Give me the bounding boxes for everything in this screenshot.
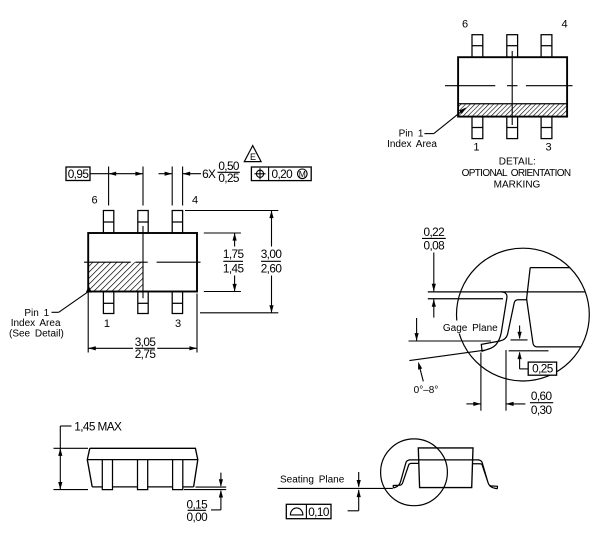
svg-text:6X: 6X [202,167,216,181]
svg-text:0°–8°: 0°–8° [414,385,439,396]
svg-text:0,20: 0,20 [272,167,294,181]
svg-text:M: M [299,169,306,179]
svg-text:OPTIONAL ORIENTATION: OPTIONAL ORIENTATION [462,168,571,179]
svg-text:0,22: 0,22 [424,225,445,239]
svg-text:3,00: 3,00 [261,247,283,261]
svg-text:6: 6 [462,19,468,31]
svg-text:0,25: 0,25 [532,362,554,376]
svg-text:0,08: 0,08 [424,239,446,253]
svg-text:3: 3 [175,318,181,330]
svg-text:0,30: 0,30 [531,403,553,417]
svg-text:(See Detail): (See Detail) [9,329,64,340]
svg-text:0,60: 0,60 [531,389,553,403]
svg-text:Pin 1: Pin 1 [399,129,424,140]
svg-text:Index Area: Index Area [387,139,437,150]
svg-text:0,00: 0,00 [187,510,209,524]
svg-text:0,95: 0,95 [68,167,90,181]
svg-text:E: E [250,152,256,162]
svg-text:Index Area: Index Area [11,318,61,329]
svg-text:Gage Plane: Gage Plane [443,323,498,334]
svg-text:0,10: 0,10 [308,505,330,519]
svg-text:1,45 MAX: 1,45 MAX [74,419,122,433]
svg-text:DETAIL:: DETAIL: [499,157,536,168]
svg-text:1,45: 1,45 [223,261,245,275]
svg-text:1: 1 [473,141,479,153]
svg-text:MARKING: MARKING [494,180,541,191]
svg-text:1: 1 [104,318,110,330]
svg-text:1,75: 1,75 [223,247,245,261]
svg-text:4: 4 [192,195,198,207]
svg-text:2,60: 2,60 [261,261,283,275]
svg-text:2,75: 2,75 [135,347,157,361]
svg-text:3: 3 [546,141,552,153]
svg-text:4: 4 [561,19,567,31]
svg-text:0,25: 0,25 [218,171,240,185]
svg-text:6: 6 [91,195,97,207]
svg-text:Seating Plane: Seating Plane [280,474,345,485]
